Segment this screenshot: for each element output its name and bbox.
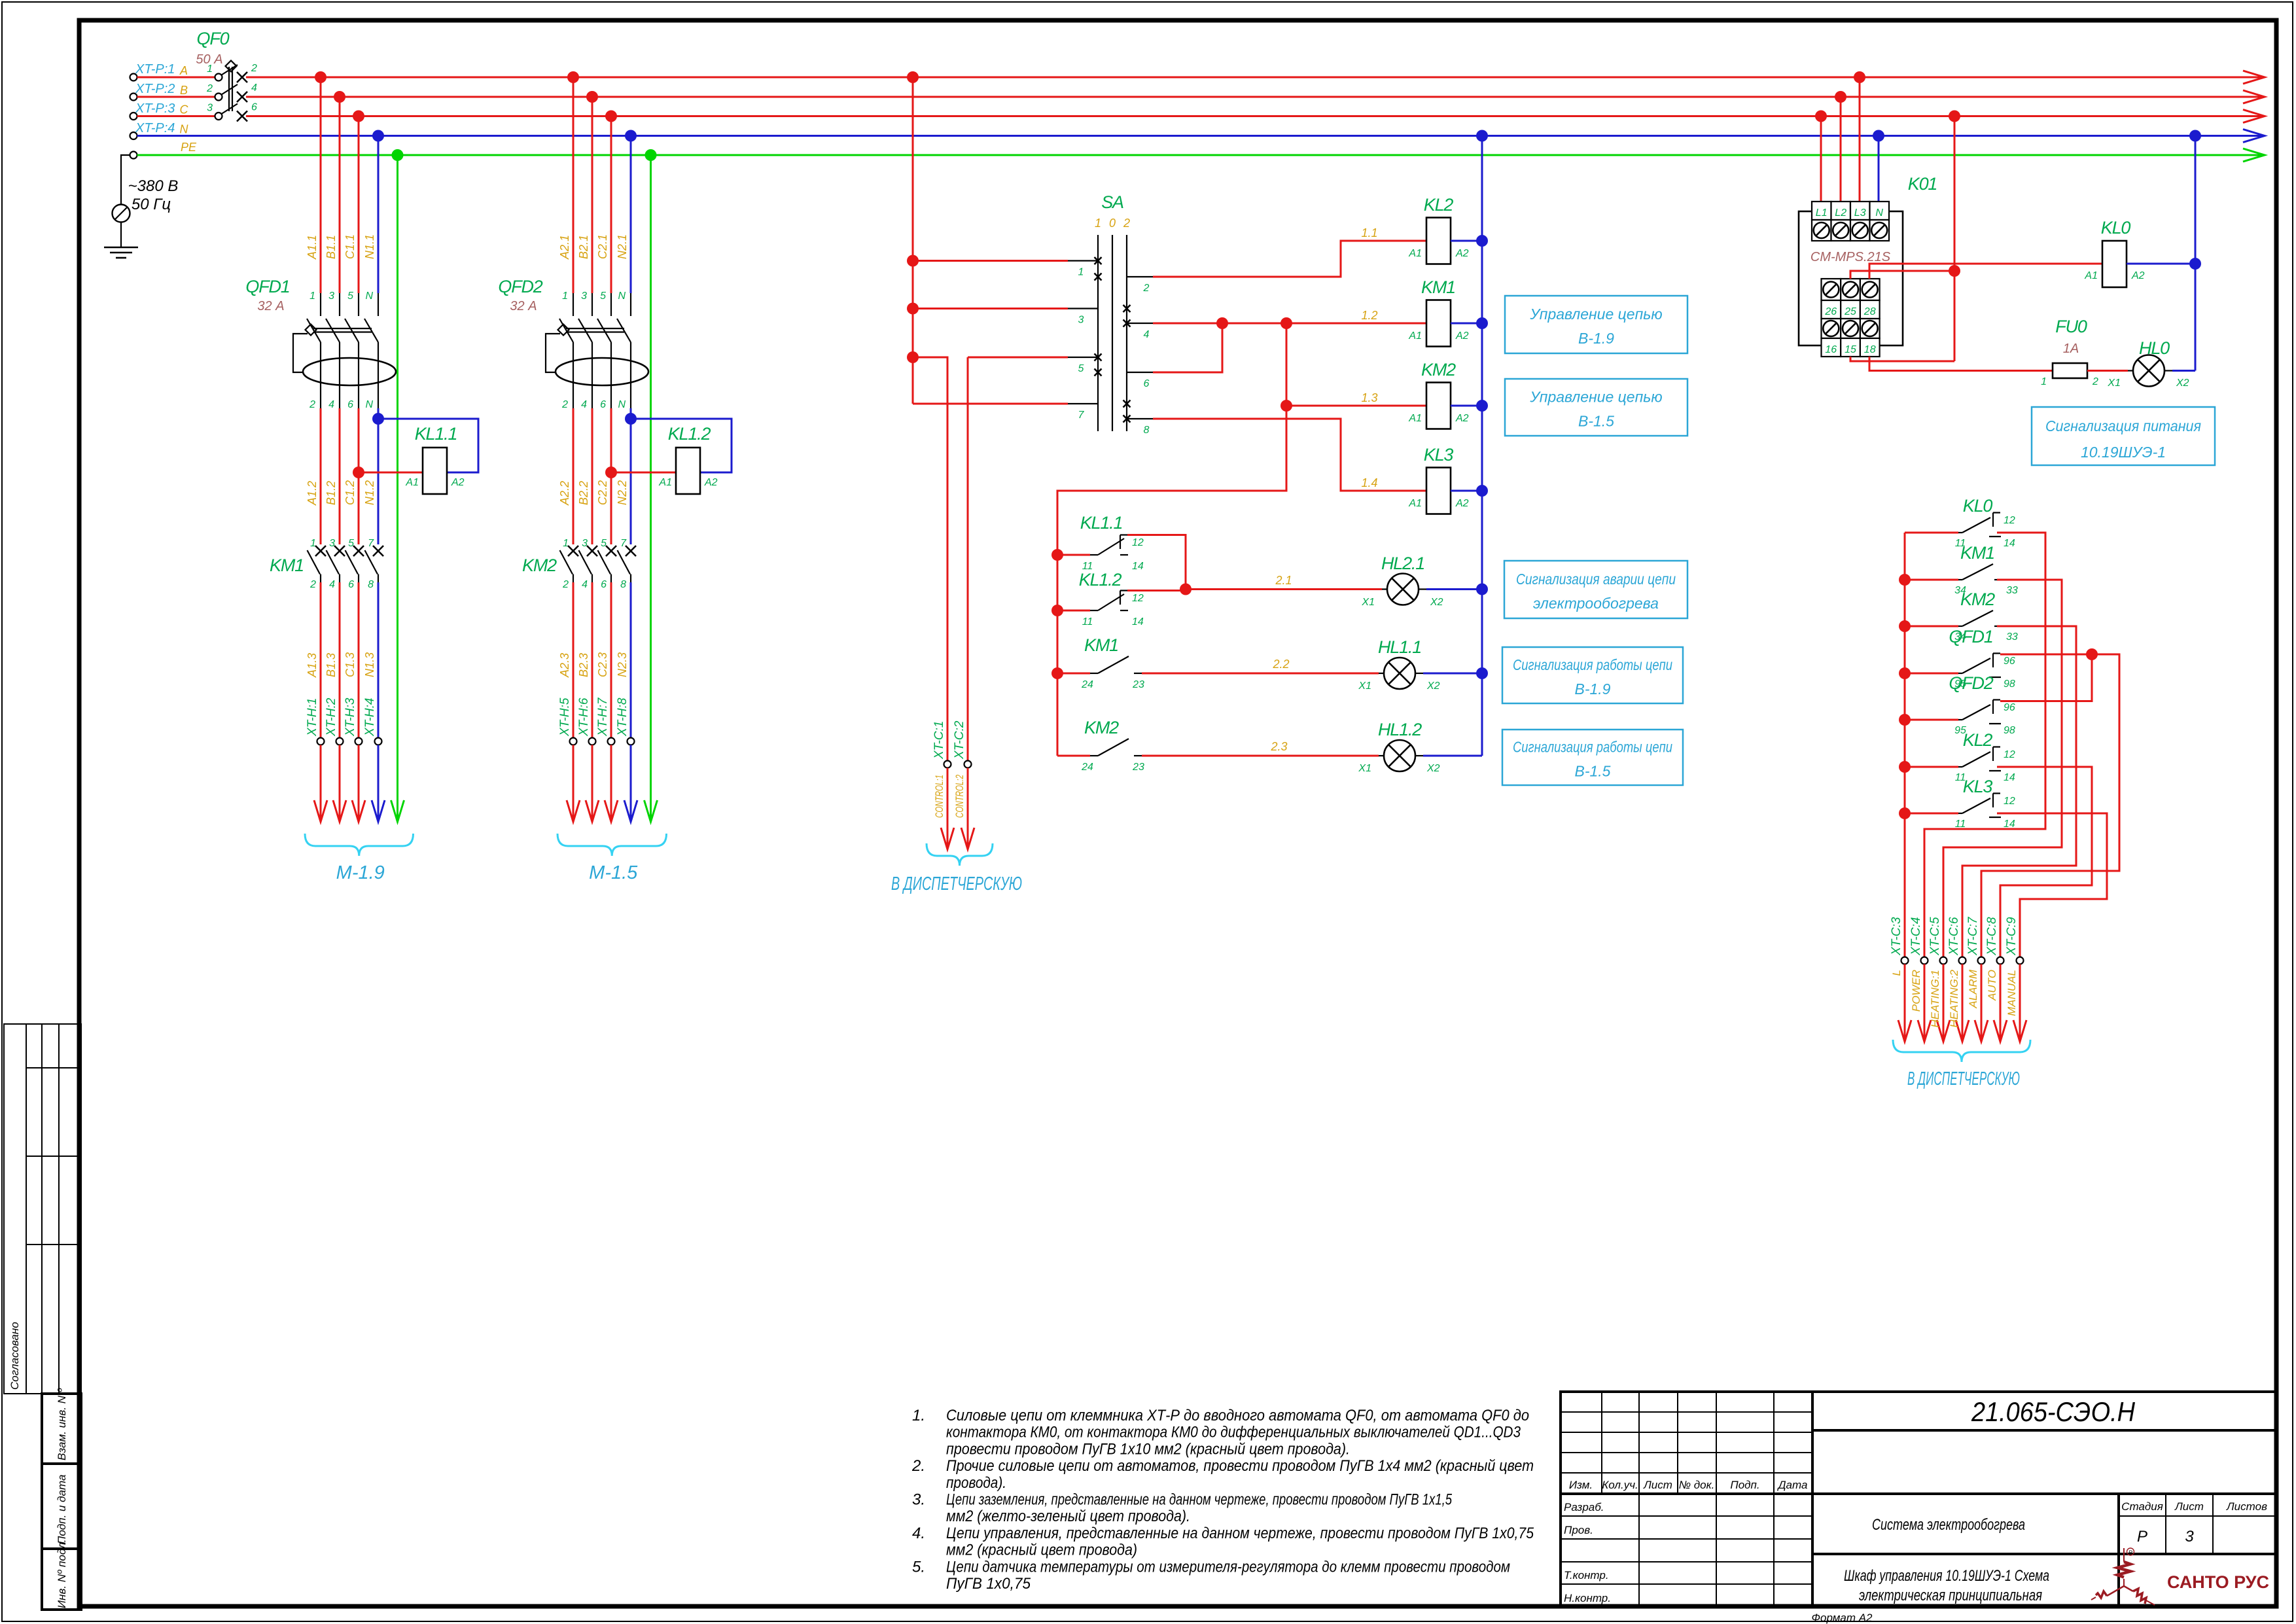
svg-text:A2: A2	[704, 477, 718, 488]
node 2.1 junction	[1180, 584, 1192, 595]
node N bus at KL3	[1476, 485, 1488, 497]
terminal XT-H:6	[589, 738, 596, 745]
terminal XT-P:4	[130, 132, 137, 139]
contactor aux contact KM2	[1057, 755, 1090, 757]
terminal XT-H:5	[570, 738, 577, 745]
svg-text:CONTROL:1: CONTROL:1	[933, 775, 945, 818]
svg-text:Система электрообогрева: Система электрообогрева	[1872, 1516, 2025, 1534]
svg-text:4.: 4.	[912, 1525, 925, 1542]
svg-text:96: 96	[2004, 702, 2015, 713]
wire 1.1	[1153, 241, 1426, 277]
svg-text:Инв. Nº подл.: Инв. Nº подл.	[56, 1539, 68, 1608]
svg-text:Т.контр.: Т.контр.	[1564, 1569, 1609, 1581]
svg-text:23: 23	[1132, 679, 1144, 690]
source ~380V 50Hz	[121, 155, 130, 205]
wire HL2.1 X2 to N	[1426, 588, 1482, 590]
svg-text:98: 98	[2004, 679, 2015, 690]
lamp HL1.2	[1384, 740, 1415, 771]
wire MANUAL	[2019, 964, 2021, 1042]
node C feed to K01	[1949, 111, 1960, 122]
wire to SA pin 1	[913, 260, 1068, 262]
wire HL1.1 X2 to N	[1423, 673, 1482, 675]
svg-text:X1: X1	[1358, 763, 1371, 774]
node N tap to KL1.1	[372, 413, 384, 425]
svg-text:XT-H:1: XT-H:1	[306, 698, 319, 737]
svg-text:Лист: Лист	[1643, 1479, 1672, 1491]
bus phase B	[246, 96, 2261, 98]
svg-text:N2.3: N2.3	[616, 652, 629, 677]
aux contact KL3	[1899, 807, 1911, 819]
svg-text:33: 33	[2006, 631, 2018, 643]
wire phase B from XT-P:2 to QF0	[137, 96, 215, 98]
svg-text:X2: X2	[1430, 597, 1443, 608]
terminal XT-C:9	[2017, 957, 2024, 964]
svg-text:XT-C:6: XT-C:6	[1947, 917, 1961, 956]
svg-text:ALARM: ALARM	[1967, 969, 1979, 1008]
svg-text:Согласовано: Согласовано	[9, 1322, 21, 1390]
svg-text:QFD2: QFD2	[498, 277, 542, 296]
node N bus at HL1.1	[1476, 667, 1488, 679]
wire KL0 to XT-C:4	[1924, 533, 2045, 957]
svg-text:C1.2: C1.2	[344, 480, 357, 505]
relay coil KM1	[1426, 300, 1451, 347]
wire KL1.2 A1	[611, 472, 676, 474]
svg-text:A1.3: A1.3	[306, 653, 319, 678]
svg-text:B1.3: B1.3	[325, 653, 338, 677]
svg-text:1А: 1А	[2063, 342, 2079, 356]
wire B1.1 drop	[339, 97, 341, 293]
cable group brace М-1.5	[557, 834, 667, 856]
svg-text:N: N	[180, 123, 189, 136]
svg-text:X1: X1	[1361, 597, 1375, 608]
svg-text:1.4: 1.4	[1361, 476, 1377, 489]
svg-text:XT-H:6: XT-H:6	[577, 697, 591, 737]
svg-text:XT-C:1: XT-C:1	[932, 721, 946, 760]
svg-text:A1.1: A1.1	[306, 235, 319, 260]
svg-text:KL1.2: KL1.2	[1079, 570, 1122, 590]
svg-text:2: 2	[1123, 217, 1130, 230]
svg-text:14: 14	[2004, 819, 2015, 830]
svg-text:~380 В: ~380 В	[128, 177, 179, 195]
wire K01 18 to FU0	[1869, 357, 2053, 371]
svg-text:XT-C:9: XT-C:9	[2005, 917, 2019, 956]
svg-text:Шкаф управления 10.19ШУЭ-1 Схе: Шкаф управления 10.19ШУЭ-1 Схема	[1844, 1567, 2049, 1585]
svg-text:6: 6	[348, 579, 354, 590]
svg-text:3: 3	[328, 291, 334, 302]
svg-text:KM1: KM1	[1084, 635, 1118, 655]
svg-text:В-1.9: В-1.9	[1575, 680, 1611, 697]
wire PE drop	[650, 155, 652, 822]
wire C2.1 drop	[610, 116, 612, 294]
svg-text:Подп.: Подп.	[1730, 1479, 1759, 1491]
svg-text:XT-H:2: XT-H:2	[325, 697, 338, 737]
svg-text:X2: X2	[2176, 378, 2189, 389]
svg-text:14: 14	[1132, 616, 1144, 627]
relay contact KL1.2	[1057, 610, 1090, 612]
svg-text:A2: A2	[2131, 270, 2145, 281]
annotation box Сигнализация питания	[2032, 407, 2215, 465]
svg-text:XT-C:7: XT-C:7	[1966, 916, 1980, 956]
svg-text:8: 8	[368, 579, 374, 590]
svg-text:A1.2: A1.2	[306, 481, 319, 506]
wire CONTROL:2 out	[967, 768, 969, 850]
node C tap to KL1.1	[353, 467, 364, 478]
wire SA pin5 feed	[968, 357, 1068, 359]
svg-text:№ док.: № док.	[1679, 1479, 1715, 1491]
wire to SA pin 3	[913, 308, 1068, 309]
svg-text:A1: A1	[405, 477, 419, 488]
svg-text:Листов: Листов	[2226, 1500, 2267, 1513]
svg-text:5: 5	[348, 538, 354, 549]
svg-text:A1: A1	[1408, 498, 1422, 509]
svg-text:B: B	[180, 84, 188, 97]
svg-text:2.3: 2.3	[1270, 740, 1287, 753]
wire 2.1	[1186, 588, 1382, 590]
svg-text:R: R	[2128, 1549, 2132, 1556]
svg-text:электрообогрева: электрообогрева	[1533, 595, 1659, 612]
wire KL1.1 A1	[359, 472, 423, 474]
svg-text:X1: X1	[2107, 378, 2121, 389]
annotation box Сигнализация работы В-1.5	[1502, 730, 1683, 785]
svg-text:1: 1	[309, 291, 315, 302]
svg-text:2.1: 2.1	[1275, 574, 1292, 587]
left margin box Инв. № подл.	[42, 1549, 81, 1610]
svg-text:12: 12	[2004, 749, 2015, 760]
svg-text:Силовые цепи от клеммника ХТ-Р: Силовые цепи от клеммника ХТ-Р до вводно…	[946, 1407, 1529, 1424]
svg-text:QFD1: QFD1	[1949, 627, 1992, 646]
lamp HL0	[2133, 355, 2164, 387]
wire KM1 to XT-C:5	[1943, 580, 2062, 957]
svg-text:KL3: KL3	[1963, 777, 1993, 796]
svg-text:14: 14	[2004, 772, 2015, 783]
wire HL1.2 X2 to N	[1423, 755, 1482, 757]
svg-text:6: 6	[600, 399, 606, 410]
svg-text:KL1.1: KL1.1	[415, 424, 457, 444]
svg-text:Лист: Лист	[2174, 1500, 2204, 1513]
node 1.2/pin6	[1216, 317, 1228, 329]
wire 1.2 to 1.3	[1286, 323, 1288, 406]
node A tap for control feed	[907, 71, 919, 83]
svg-text:2: 2	[309, 399, 315, 410]
wire pin6 branch	[1153, 323, 1222, 372]
wire terminal 25	[1850, 271, 1954, 279]
svg-text:32 А: 32 А	[257, 299, 284, 313]
svg-text:4: 4	[1144, 329, 1150, 340]
svg-text:25: 25	[1844, 306, 1856, 317]
K01 output terminals 26 25 28 / 16 15 18	[1822, 279, 1841, 300]
svg-text:12: 12	[1132, 537, 1144, 548]
svg-text:1.2: 1.2	[1361, 309, 1377, 322]
logo САНТО РУС	[2091, 1548, 2155, 1605]
terminal XT-C:1	[944, 761, 951, 768]
svg-text:Р: Р	[2137, 1528, 2147, 1545]
svg-text:50 Гц: 50 Гц	[132, 196, 171, 213]
svg-text:3.: 3.	[912, 1491, 925, 1509]
wire 1.4	[1153, 419, 1426, 491]
svg-text:14: 14	[1132, 561, 1144, 572]
svg-text:HEATING:1: HEATING:1	[1929, 970, 1941, 1027]
svg-text:FU0: FU0	[2055, 317, 2087, 336]
svg-text:2.2: 2.2	[1272, 658, 1289, 671]
svg-text:3: 3	[582, 538, 588, 549]
svg-text:15: 15	[1845, 344, 1856, 355]
wire terminal 15	[1850, 357, 1954, 361]
svg-text:KL2: KL2	[1424, 195, 1454, 215]
svg-text:8: 8	[1144, 425, 1150, 436]
svg-text:6: 6	[251, 102, 257, 113]
svg-text:3: 3	[581, 291, 587, 302]
svg-text:7: 7	[620, 538, 627, 549]
svg-text:A2.1: A2.1	[558, 235, 571, 260]
wire contact feed bus	[1057, 406, 1286, 756]
svg-text:4: 4	[582, 579, 588, 590]
svg-text:CM-MPS.21S: CM-MPS.21S	[1810, 250, 1891, 264]
svg-text:KL1.1: KL1.1	[1080, 513, 1123, 533]
svg-text:1.: 1.	[912, 1407, 925, 1424]
wire control N bus	[1481, 136, 1483, 756]
wire A2.1 drop	[573, 77, 574, 293]
wire K01 28 to KL0 A1	[1869, 264, 2102, 279]
node KL0 A2/N	[2189, 258, 2201, 270]
svg-text:4: 4	[251, 82, 257, 94]
svg-text:5: 5	[1078, 363, 1084, 374]
svg-text:XT-C:3: XT-C:3	[1890, 917, 1903, 956]
svg-text:М-1.9: М-1.9	[336, 862, 385, 883]
svg-text:1: 1	[2041, 376, 2047, 387]
svg-text:KM1: KM1	[1960, 543, 1994, 563]
svg-text:N2.2: N2.2	[616, 480, 629, 505]
node XT-C:1 tap	[907, 351, 919, 363]
wire KL1.1 12 to 2.1	[1127, 535, 1186, 590]
svg-text:Сигнализация работы цепи: Сигнализация работы цепи	[1513, 656, 1672, 673]
svg-text:Прочие силовые цепи от автомат: Прочие силовые цепи от автоматов, провес…	[946, 1457, 1534, 1475]
svg-text:POWER: POWER	[1910, 970, 1922, 1012]
wire XT-C:2 drop	[967, 357, 969, 761]
svg-text:KL1.2: KL1.2	[668, 424, 711, 444]
svg-text:XT-C:5: XT-C:5	[1928, 917, 1942, 956]
wire KM1 A2 to N bus	[1451, 323, 1482, 325]
lamp HL2.1	[1387, 574, 1419, 605]
annotation box Сигнализация аварии	[1504, 561, 1687, 618]
dispatcher brace 1	[927, 843, 993, 866]
svg-text:1.1: 1.1	[1361, 226, 1377, 239]
svg-text:QFD1: QFD1	[245, 277, 289, 296]
node 1.3 junction	[1280, 400, 1292, 412]
svg-text:XT-C:8: XT-C:8	[1985, 917, 1999, 956]
node 25/C junction	[1949, 265, 1960, 277]
svg-text:C2.3: C2.3	[596, 652, 609, 677]
relay coil KL1.2	[676, 448, 700, 494]
svg-text:Взам. инв. N º: Взам. инв. N º	[56, 1388, 68, 1460]
svg-text:1: 1	[1095, 217, 1101, 230]
node C tap to KL1.2	[605, 467, 617, 478]
svg-text:HL1.2: HL1.2	[1378, 720, 1422, 739]
svg-text:98: 98	[2004, 725, 2015, 736]
svg-text:Управление цепью: Управление цепью	[1529, 306, 1662, 323]
svg-text:1: 1	[1078, 267, 1084, 278]
svg-text:6: 6	[601, 579, 607, 590]
svg-text:2.: 2.	[911, 1457, 925, 1475]
left margin approval table Согласовано	[4, 1024, 81, 1394]
svg-text:A1: A1	[2084, 270, 2098, 281]
wire to K01 L1	[1820, 116, 1822, 202]
relay contact KL1.1	[1057, 554, 1090, 556]
aux contact QFD2	[1899, 714, 1911, 726]
aux contact KL0	[1905, 532, 1958, 534]
terminal XT-P:1	[130, 74, 137, 81]
svg-text:N: N	[365, 291, 373, 302]
node N tap K01	[1873, 130, 1884, 142]
wire control feed bus	[912, 77, 914, 404]
svg-text:XT-H:5: XT-H:5	[558, 697, 572, 737]
ground symbol	[104, 247, 138, 249]
node L2 tap	[1835, 91, 1846, 103]
svg-text:N: N	[1875, 207, 1883, 219]
node N tap control	[1476, 130, 1488, 142]
svg-text:В-1.5: В-1.5	[1578, 413, 1614, 430]
annotation box Управление В-1.5	[1505, 379, 1687, 436]
svg-text:11: 11	[1082, 616, 1093, 627]
svg-text:1.3: 1.3	[1361, 391, 1377, 404]
wire QFD1/QFD2 96 to XT-C:7	[1981, 654, 2119, 957]
svg-text:2: 2	[561, 399, 568, 410]
wire C to terminal 15	[1954, 116, 1956, 362]
wire A1.1 drop	[320, 77, 322, 293]
svg-text:KM2: KM2	[1421, 360, 1456, 380]
svg-text:N1.2: N1.2	[363, 480, 376, 505]
svg-text:6: 6	[347, 399, 353, 410]
svg-text:A1: A1	[658, 477, 672, 488]
svg-text:N: N	[365, 399, 373, 410]
bus phase A	[246, 77, 2261, 79]
svg-text:XT-H:4: XT-H:4	[363, 698, 377, 737]
svg-text:24: 24	[1081, 762, 1093, 773]
svg-text:KM2: KM2	[522, 556, 557, 575]
aux contact QFD1	[1899, 667, 1911, 679]
node 1.2/1.3	[1280, 317, 1292, 329]
svg-text:AUTO: AUTO	[1986, 970, 1998, 1001]
wire ALARM	[1981, 964, 1983, 1042]
node KL1.2 feed	[1051, 605, 1063, 616]
svg-text:X2: X2	[1426, 763, 1440, 774]
svg-text:Формат А2: Формат А2	[1811, 1612, 1873, 1624]
svg-text:В ДИСПЕТЧЕРСКУЮ: В ДИСПЕТЧЕРСКУЮ	[891, 874, 1022, 894]
wire POWER	[1924, 964, 1926, 1042]
terminal XT-C:6	[1959, 957, 1966, 964]
svg-text:B2.3: B2.3	[577, 653, 590, 677]
node L3 tap	[1854, 71, 1865, 83]
wire CONTROL:1 out	[947, 768, 949, 850]
svg-text:3: 3	[1078, 315, 1084, 326]
wire L	[1904, 964, 1906, 1042]
svg-text:12: 12	[2004, 515, 2015, 526]
svg-text:16: 16	[1825, 344, 1837, 355]
svg-text:10.19ШУЭ-1: 10.19ШУЭ-1	[2081, 444, 2166, 461]
svg-text:21.065-СЭО.Н: 21.065-СЭО.Н	[1971, 1396, 2136, 1427]
svg-text:C2.2: C2.2	[596, 480, 609, 505]
svg-text:N1.1: N1.1	[363, 234, 376, 259]
svg-text:8: 8	[620, 579, 626, 590]
svg-text:2: 2	[562, 579, 569, 590]
node N bus at KL2	[1476, 235, 1488, 247]
svg-text:ПуГВ 1х0,75: ПуГВ 1х0,75	[946, 1575, 1031, 1593]
node N tap to KL1.2	[625, 413, 637, 425]
svg-text:K01: K01	[1908, 174, 1937, 194]
aux contact KL2	[1899, 761, 1911, 773]
svg-text:A2: A2	[451, 477, 465, 488]
svg-text:2: 2	[309, 579, 316, 590]
svg-text:6: 6	[1144, 378, 1150, 389]
svg-text:0: 0	[1109, 217, 1116, 230]
terminal XT-C:7	[1978, 957, 1985, 964]
node N bus at KM2	[1476, 400, 1488, 412]
svg-text:Управление цепью: Управление цепью	[1529, 389, 1662, 406]
svg-text:HL2.1: HL2.1	[1381, 554, 1424, 573]
svg-text:A1: A1	[1408, 248, 1422, 259]
svg-text:N2.1: N2.1	[616, 234, 629, 259]
svg-text:7: 7	[368, 538, 374, 549]
wire KL1.2 A2	[631, 419, 732, 472]
svg-text:Изм.: Изм.	[1569, 1479, 1593, 1491]
svg-text:32 А: 32 А	[510, 299, 537, 313]
svg-text:4: 4	[329, 579, 335, 590]
svg-text:C1.1: C1.1	[344, 234, 357, 259]
wire HEATING:2	[1962, 964, 1964, 1042]
wire B2.1 drop	[592, 97, 593, 293]
svg-text:KL3: KL3	[1424, 445, 1454, 465]
svg-text:4: 4	[328, 399, 334, 410]
svg-text:мм2 (красный цвет провода): мм2 (красный цвет провода)	[946, 1542, 1137, 1559]
wire to K01 N	[1878, 136, 1880, 202]
QF0 linkage	[228, 67, 230, 111]
svg-text:Сигнализация аварии цепи: Сигнализация аварии цепи	[1516, 571, 1676, 588]
svg-text:A2: A2	[1455, 413, 1469, 424]
svg-text:5: 5	[601, 538, 607, 549]
svg-text:23: 23	[1132, 762, 1144, 773]
svg-text:KM2: KM2	[1084, 718, 1119, 737]
bus PE	[137, 154, 2262, 156]
svg-text:11: 11	[1955, 819, 1966, 830]
svg-text:26: 26	[1824, 306, 1837, 317]
aux contact KM2	[1899, 620, 1911, 632]
svg-text:В ДИСПЕТЧЕРСКУЮ: В ДИСПЕТЧЕРСКУЮ	[1907, 1068, 2020, 1089]
svg-text:В-1.9: В-1.9	[1578, 330, 1614, 347]
terminal XT-P:2	[130, 94, 137, 101]
svg-text:B2.2: B2.2	[577, 481, 590, 505]
terminal XT-H:7	[608, 738, 615, 745]
wire to K01 L2	[1840, 97, 1842, 202]
svg-text:В-1.5: В-1.5	[1575, 763, 1611, 780]
terminal XT-H:2	[336, 738, 344, 745]
svg-text:XT-C:4: XT-C:4	[1909, 917, 1923, 956]
svg-text:электрическая принципиальная: электрическая принципиальная	[1859, 1587, 2042, 1604]
svg-text:B1.1: B1.1	[325, 235, 338, 259]
svg-text:PE: PE	[181, 141, 197, 154]
svg-text:Сигнализация питания: Сигнализация питания	[2045, 417, 2201, 434]
svg-text:Н.контр.: Н.контр.	[1564, 1592, 1611, 1604]
svg-text:L3: L3	[1854, 207, 1866, 219]
bus phase C	[246, 115, 2261, 117]
wire to K01 L3	[1859, 77, 1861, 202]
svg-text:L2: L2	[1835, 207, 1846, 219]
wire to SA pin 7	[913, 403, 1068, 405]
wire KL2 to XT-C:8	[1997, 767, 2092, 957]
svg-text:18: 18	[1864, 344, 1876, 355]
svg-text:Сигнализация работы цепи: Сигнализация работы цепи	[1513, 739, 1672, 756]
svg-text:XT-H:3: XT-H:3	[344, 697, 357, 737]
svg-text:X1: X1	[1358, 680, 1371, 692]
svg-text:24: 24	[1081, 679, 1093, 690]
